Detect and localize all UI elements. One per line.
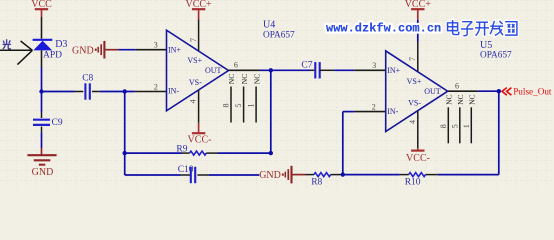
light arrow into photodiode (0, 41, 32, 65)
svg-text:OPA657: OPA657 (263, 31, 295, 41)
svg-text:5: 5 (450, 124, 459, 128)
capacitor C9 (33, 120, 50, 125)
op-amp U5 triangle body (386, 51, 448, 132)
pin C9 bottom pin (41, 127, 43, 133)
pin U4 NC pin 8 (230, 87, 232, 123)
pin U4 NC pin 1 (255, 87, 257, 123)
wire GND to U4 pin 3 (118, 49, 135, 51)
resistor R10 (409, 173, 426, 177)
pin U4 NC pin 5 (243, 87, 245, 123)
wire to R9 (125, 152, 182, 154)
svg-text:C10: C10 (178, 165, 194, 175)
svg-text:1: 1 (462, 124, 471, 128)
wire anode to node A (41, 67, 43, 92)
pin R9 right pin (206, 152, 217, 154)
pin C7 right pin (320, 69, 334, 71)
svg-text:VCC: VCC (31, 0, 52, 10)
pin C10 left pin (181, 174, 191, 176)
svg-text:C9: C9 (52, 118, 63, 128)
svg-text:R9: R9 (176, 144, 187, 154)
junction R9 right node (269, 151, 273, 155)
svg-text:IN+: IN+ (387, 66, 400, 75)
port Pulse_Out chevrons (502, 88, 511, 96)
pin U5 pin 3 (IN+) (354, 69, 385, 71)
ground GND at U4 IN+ (72, 41, 118, 59)
svg-text:GND: GND (259, 170, 281, 181)
pin R8 right pin (331, 174, 343, 176)
pin U5 pin 7 (VS+) (417, 42, 419, 72)
svg-text:2: 2 (372, 102, 376, 111)
svg-text:www.dzkfw.com.cn: www.dzkfw.com.cn (326, 22, 441, 36)
svg-text:D3: D3 (55, 39, 67, 50)
svg-text:VS+: VS+ (407, 77, 422, 86)
wire C7 to U5 pin 3 (334, 69, 354, 71)
pin R10 left pin (400, 174, 409, 176)
wire node A down to C9 (41, 92, 43, 113)
wire output down to R10 (498, 91, 500, 174)
svg-text:IN+: IN+ (168, 46, 181, 55)
pin U4 pin 3 (IN+) (136, 49, 167, 51)
svg-text:NC: NC (445, 94, 454, 104)
svg-text:1: 1 (247, 104, 256, 108)
pin R8 left pin (306, 174, 314, 176)
junction node A (39, 89, 43, 93)
resistor R9 (190, 151, 207, 155)
wire VCC- stem U4 (198, 123, 200, 133)
ground GND at R8 (259, 166, 305, 184)
wire node B down feedback (124, 92, 126, 176)
power symbol VCC+ above U4 (185, 0, 212, 10)
text 光 (light) (3, 39, 11, 49)
pin R9 left pin (182, 152, 190, 154)
svg-text:VS+: VS+ (187, 56, 202, 65)
capacitor C10 (191, 167, 195, 183)
wire VCC+ to U5 pin 7 (417, 20, 419, 42)
svg-text:GND: GND (32, 167, 54, 178)
wire node A to C8 (42, 91, 75, 93)
pin C10 right pin (197, 174, 208, 176)
svg-text:VCC+: VCC+ (405, 0, 432, 10)
wire R9 to output branch (218, 152, 271, 154)
pin C9 top pin (41, 112, 43, 118)
power symbol VCC- below U4 (188, 133, 212, 145)
svg-text:8: 8 (439, 124, 448, 128)
resistor R8 (314, 173, 331, 177)
pin U4 pin 2 (IN-) (135, 91, 167, 93)
pin U4 pin 6 (OUT) (229, 69, 260, 71)
svg-text:NC: NC (252, 74, 261, 84)
op-amp U4 triangle body (167, 30, 229, 111)
svg-text:IN-: IN- (168, 87, 179, 96)
pin D3 anode pin (41, 50, 43, 67)
wire U4 out to C7 (260, 69, 310, 71)
capacitor C7 (315, 62, 319, 78)
svg-text:3: 3 (372, 61, 376, 70)
wire C10 to right (209, 174, 260, 176)
wire VCC+ stem U5 (417, 9, 419, 20)
wire corner to U5 pin 2 (343, 111, 354, 113)
wire U5 out to port (478, 90, 499, 92)
svg-text:R8: R8 (311, 177, 322, 187)
pin U5 pin 6 (OUT) (448, 90, 478, 92)
pin R10 right pin (426, 174, 438, 176)
power symbol VCC (photodiode supply) (31, 0, 52, 10)
junction U5 output node (497, 89, 501, 93)
svg-text:NC: NC (240, 74, 249, 84)
wire C8 to node B (100, 91, 135, 93)
svg-text:OPA657: OPA657 (480, 50, 512, 60)
junction node B (123, 89, 127, 93)
power symbol VCC- below U5 (406, 151, 430, 165)
svg-text:C7: C7 (301, 60, 312, 70)
wire R10 to output feedback (438, 174, 499, 176)
junction R8/R10 node (341, 172, 345, 176)
power symbol VCC+ above U5 (405, 0, 432, 10)
pin C8 left pin (75, 91, 84, 93)
svg-text:4: 4 (189, 100, 198, 104)
wire C9 to ground (41, 132, 43, 148)
svg-text:NC: NC (456, 94, 465, 104)
svg-text:OUT: OUT (424, 87, 441, 96)
junction R9 left node (123, 151, 127, 155)
svg-text:VCC-: VCC- (188, 135, 212, 146)
wire U4 output down to R9 (270, 70, 272, 153)
svg-text:8: 8 (222, 104, 231, 108)
svg-text:GND: GND (72, 45, 94, 56)
ground GND below C9 (27, 148, 56, 178)
svg-text:VCC-: VCC- (406, 153, 430, 164)
svg-text:7: 7 (189, 38, 198, 42)
svg-text:OUT: OUT (205, 66, 222, 75)
svg-text:6: 6 (455, 82, 459, 91)
svg-text:6: 6 (234, 61, 238, 70)
svg-text:U4: U4 (263, 19, 275, 30)
svg-text:Pulse_Out: Pulse_Out (513, 87, 552, 97)
watermark 电子开发网 (hand-drawn glyphs) (448, 20, 459, 35)
pin U5 NC pin 8 (447, 107, 449, 143)
pin U5 NC pin 1 (470, 107, 472, 143)
wire VCC stem (41, 9, 43, 17)
wire junction up to U5 IN- (342, 112, 344, 175)
pin U5 pin 4 (VS-) (417, 111, 419, 148)
svg-text:VCC+: VCC+ (185, 0, 212, 10)
pin C8 right pin (92, 91, 100, 93)
pin U5 pin 2 (IN-) (354, 111, 386, 113)
pin U5 NC pin 5 (459, 107, 461, 143)
svg-text:IN-: IN- (387, 107, 398, 116)
junction U4 output node (269, 68, 273, 72)
wire corner to C10 (125, 174, 181, 176)
svg-text:7: 7 (408, 57, 417, 61)
wire R8 node to R10 (343, 174, 400, 176)
svg-text:C8: C8 (82, 74, 93, 84)
svg-text:R10: R10 (405, 177, 421, 187)
svg-text:3: 3 (154, 41, 158, 50)
pin U4 pin 7 (VS+) (198, 20, 200, 51)
pin U4 pin 4 (VS-) (198, 90, 200, 123)
photodiode D3 (33, 40, 53, 51)
capacitor C8 (85, 83, 89, 99)
pin D3 cathode pin (41, 17, 43, 39)
wire VCC- stem U5 (417, 148, 419, 150)
pin C7 left pin (310, 69, 314, 71)
svg-text:5: 5 (234, 104, 243, 108)
svg-text:NC: NC (227, 74, 236, 84)
svg-text:VS-: VS- (408, 99, 421, 108)
svg-text:APD: APD (43, 51, 62, 61)
svg-text:NC: NC (468, 94, 477, 104)
svg-text:4: 4 (408, 120, 417, 124)
wire VCC+ stem U4 (198, 9, 200, 19)
svg-text:VS-: VS- (189, 78, 202, 87)
svg-text:2: 2 (154, 83, 158, 92)
